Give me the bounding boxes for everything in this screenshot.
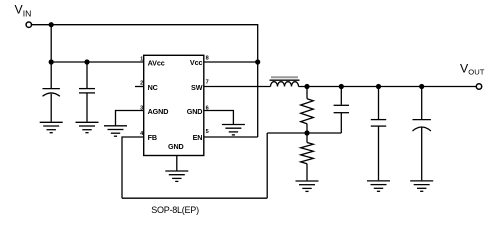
svg-text:OUT: OUT bbox=[468, 68, 484, 77]
capacitor C1 (polarized input bulk cap) bbox=[43, 62, 60, 122]
svg-text:FB: FB bbox=[148, 133, 157, 142]
svg-text:Vcc: Vcc bbox=[190, 58, 203, 67]
junction Cff tap bbox=[339, 84, 344, 89]
ground G7 under C3 bbox=[367, 181, 390, 191]
wire AGND (pin 3) bbox=[116, 111, 144, 126]
ground G2 under C2 bbox=[76, 122, 99, 132]
ground G1 under C1 bbox=[40, 122, 63, 132]
junction C1 tap bbox=[49, 59, 54, 64]
junction Vcc/VIN bbox=[255, 59, 260, 64]
svg-text:SOP-8L(EP): SOP-8L(EP) bbox=[151, 205, 199, 215]
svg-text:6: 6 bbox=[206, 105, 209, 111]
inductor L1 bbox=[270, 77, 300, 86]
wire FB bottom rail bbox=[122, 197, 267, 199]
resistor R2 (lower divider) bbox=[301, 133, 314, 180]
wire EN (pin 5) bbox=[204, 136, 258, 138]
wire FB riser bbox=[266, 133, 268, 198]
ground G3 AGND bbox=[104, 126, 127, 136]
wire exposed pad lead bbox=[176, 156, 178, 171]
wire GND (pin 6) bbox=[204, 111, 234, 125]
svg-text:AGND: AGND bbox=[148, 107, 169, 116]
wire VIN top rail bbox=[32, 25, 258, 137]
node VOUT terminal bbox=[476, 84, 481, 89]
svg-text:SW: SW bbox=[191, 83, 203, 92]
junction C2 tap bbox=[84, 59, 89, 64]
capacitor Cff (feedforward) bbox=[334, 87, 349, 134]
junction C4 tap bbox=[419, 84, 424, 89]
ground G6 under R2 bbox=[296, 181, 319, 191]
wire NC stub (pin 2) bbox=[135, 86, 144, 88]
junction L1/R1 bbox=[304, 84, 309, 89]
svg-text:5: 5 bbox=[206, 129, 209, 135]
wire VIN drop to AVcc rail bbox=[50, 25, 52, 62]
svg-text:3: 3 bbox=[140, 105, 143, 111]
ground G5 exposed pad bbox=[165, 171, 188, 181]
resistor R1 (upper divider) bbox=[301, 87, 314, 134]
junction C3 tap bbox=[376, 84, 381, 89]
ground G8 under C4 bbox=[410, 181, 433, 191]
svg-text:8: 8 bbox=[206, 56, 209, 62]
capacitor C4 (polarized output bulk) bbox=[413, 87, 431, 181]
svg-text:AVcc: AVcc bbox=[148, 58, 165, 67]
wire FB link to divider bbox=[267, 132, 341, 134]
label VIN bbox=[15, 3, 32, 19]
label VOUT bbox=[460, 61, 485, 76]
wire output rail bbox=[299, 86, 477, 88]
svg-text:NC: NC bbox=[148, 83, 158, 92]
wire AVcc rail (pin 1) bbox=[51, 61, 144, 63]
capacitor C2 (input ceramic cap) bbox=[79, 62, 95, 122]
junction FB/divider bbox=[304, 130, 309, 135]
svg-text:1: 1 bbox=[140, 56, 143, 62]
svg-text:7: 7 bbox=[206, 80, 209, 86]
svg-text:IN: IN bbox=[23, 9, 32, 19]
svg-text:2: 2 bbox=[140, 81, 143, 87]
svg-text:GND: GND bbox=[168, 142, 184, 151]
wire Vcc (pin 8) bbox=[204, 61, 258, 63]
junction VIN rail bbox=[49, 22, 54, 27]
wire SW (pin 7) bbox=[204, 86, 271, 88]
node VIN terminal bbox=[26, 22, 31, 27]
IC U1 SOP-8 body bbox=[144, 55, 204, 155]
ground G4 pin6 bbox=[222, 125, 245, 135]
wire FB (pin 4) to bottom rail bbox=[122, 137, 144, 198]
svg-text:EN: EN bbox=[193, 133, 203, 142]
svg-text:GND: GND bbox=[187, 107, 203, 116]
capacitor C3 (output ceramic) bbox=[371, 87, 386, 181]
